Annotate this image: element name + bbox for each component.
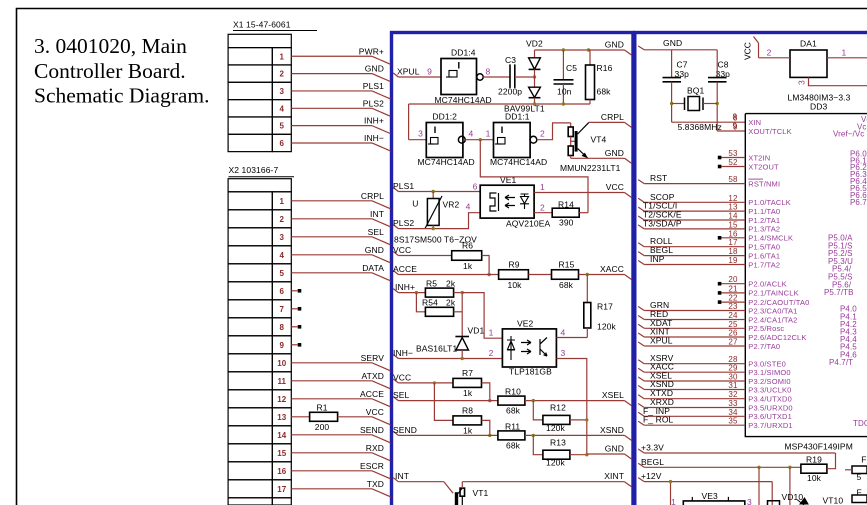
DD3 pin 12 P1.0/TACLK: [638, 198, 644, 202]
svg-text:P2.1/TAINCLK: P2.1/TAINCLK: [748, 289, 798, 298]
svg-text:14: 14: [277, 431, 287, 440]
svg-text:BEGL: BEGL: [641, 457, 664, 467]
svg-text:SEL: SEL: [393, 390, 410, 400]
svg-text:INT: INT: [395, 471, 409, 481]
right module border: [635, 33, 867, 505]
svg-text:R54: R54: [422, 298, 438, 308]
wire R9 to R15: [528, 274, 551, 276]
svg-text:BQ1: BQ1: [687, 86, 704, 96]
net GND port top right: [589, 49, 625, 51]
wire X2 pin 12 net ACCE: [291, 398, 372, 400]
svg-text:1: 1: [540, 182, 545, 192]
wire X2 pin 10 net SERV: [291, 362, 372, 364]
svg-text:F: F: [857, 488, 862, 498]
svg-text:P3.7/URXD1: P3.7/URXD1: [748, 421, 792, 430]
svg-text:29: 29: [728, 364, 738, 373]
svg-text:DD1:2: DD1:2: [432, 111, 457, 121]
DD3 pin 29 P3.1/SIMO0: [638, 368, 644, 372]
svg-text:8: 8: [733, 114, 738, 123]
svg-text:R13: R13: [550, 437, 566, 447]
svg-text:VD10: VD10: [782, 492, 804, 502]
svg-text:GND: GND: [605, 40, 624, 50]
wire VE1 pin1 to VCC port: [534, 192, 624, 194]
wire DD1:1 output to VT4: [537, 123, 571, 140]
svg-text:5: 5: [280, 122, 285, 131]
wire R5/R54 junction to VE2 pin1: [454, 292, 463, 294]
svg-text:25: 25: [728, 320, 738, 329]
resistor R13 120k: [533, 435, 543, 454]
svg-text:XPUL: XPUL: [650, 336, 673, 346]
left module border: [392, 33, 634, 505]
svg-text:XOUT/TCLK: XOUT/TCLK: [748, 127, 791, 136]
svg-text:TXD: TXD: [367, 479, 384, 489]
svg-text:+12V: +12V: [641, 471, 662, 481]
svg-text:1: 1: [842, 48, 847, 58]
svg-text:P1.5/TA0: P1.5/TA0: [748, 243, 780, 252]
wire X2 pin 6 no-connect stub: [291, 290, 297, 292]
svg-text:P2.6/ADC12CLK: P2.6/ADC12CLK: [748, 333, 806, 342]
svg-text:P1.2/TA1: P1.2/TA1: [748, 216, 780, 225]
net GND port right module: [638, 46, 644, 50]
svg-text:1: 1: [671, 497, 676, 505]
svg-text:10n: 10n: [557, 87, 572, 97]
svg-text:16: 16: [728, 229, 738, 238]
svg-text:3: 3: [280, 87, 285, 96]
wire XIN: [672, 121, 746, 123]
svg-text:2k: 2k: [446, 298, 456, 308]
svg-text:2200p: 2200p: [498, 87, 522, 97]
svg-text:R17: R17: [597, 302, 613, 312]
svg-text:Vref−/Vc: Vref−/Vc: [833, 130, 864, 139]
svg-text:2: 2: [280, 215, 285, 224]
wire X2 pin 9 no-connect stub: [291, 344, 297, 346]
wire X1 pin 3 net PLS1: [291, 90, 372, 92]
DD3 pin 33 P3.5/URXD0: [638, 404, 644, 408]
wire R15 to XACC port: [579, 274, 625, 276]
svg-text:XACC: XACC: [600, 264, 624, 274]
svg-text:R19: R19: [806, 454, 822, 464]
svg-text:GND: GND: [663, 38, 682, 48]
svg-text:24: 24: [728, 311, 738, 320]
svg-text:VR2: VR2: [443, 200, 460, 210]
wire GND top rail: [535, 49, 589, 51]
wire X2 pin 16 net ESCR: [291, 470, 372, 472]
svg-text:DATA: DATA: [362, 263, 384, 273]
svg-text:P1.4/SMCLK: P1.4/SMCLK: [748, 234, 793, 243]
svg-text:34: 34: [728, 408, 738, 417]
wire VCC to R7: [398, 382, 453, 384]
wire VE2 pin4 to R17: [556, 337, 587, 339]
svg-text:120k: 120k: [546, 458, 565, 468]
svg-text:3: 3: [280, 233, 285, 242]
svg-text:GND: GND: [605, 444, 624, 454]
svg-text:53: 53: [728, 149, 738, 158]
svg-text:XIN: XIN: [748, 118, 761, 127]
wire GND rail to C7 C8: [644, 49, 717, 51]
wire X1 pin 2 net GND: [291, 73, 372, 75]
wire X2 pin 15 net RXD: [291, 452, 372, 454]
svg-text:R8: R8: [462, 406, 473, 416]
resistor R12 120k: [533, 401, 543, 420]
svg-text:TLP181GB: TLP181GB: [509, 367, 552, 377]
svg-text:P3.6/UTXD1: P3.6/UTXD1: [748, 412, 792, 421]
svg-text:1: 1: [280, 197, 285, 206]
DD3 pin 24 P2.4/CA1/TA2: [638, 316, 644, 320]
DD3 pin 18 P1.6/TA1: [638, 252, 644, 256]
svg-text:VCC: VCC: [743, 42, 753, 60]
svg-text:X1 15-47-6061: X1 15-47-6061: [233, 20, 291, 30]
svg-text:5.8368MHz: 5.8368MHz: [678, 122, 722, 132]
svg-text:12: 12: [728, 194, 738, 203]
svg-text:R10: R10: [505, 387, 521, 397]
svg-text:ESCR: ESCR: [360, 461, 384, 471]
svg-text:8: 8: [486, 67, 491, 77]
svg-text:VD2: VD2: [526, 39, 543, 49]
svg-text:32: 32: [728, 390, 738, 399]
svg-text:SEL: SEL: [368, 227, 385, 237]
net +3.3V rail: [638, 449, 644, 453]
svg-text:DA1: DA1: [800, 39, 817, 49]
wire X1 pin 1 net PWR+: [291, 55, 372, 57]
svg-text:9: 9: [733, 123, 738, 132]
svg-text:DD3: DD3: [810, 102, 827, 112]
svg-text:68k: 68k: [597, 87, 612, 97]
svg-text:33: 33: [728, 399, 738, 408]
svg-text:T3/SDA/P: T3/SDA/P: [643, 218, 682, 228]
svg-text:3: 3: [747, 497, 752, 505]
wire rail down to DD1:2 input: [408, 104, 410, 140]
net INH- port: [393, 355, 398, 359]
wire X1 pin 4 net PLS2: [291, 107, 372, 109]
net INT port: [393, 478, 398, 482]
wire PLS2 to VE1 pin 4: [398, 213, 480, 229]
svg-text:VT1: VT1: [473, 488, 489, 498]
DD3 pin 32 P3.4/UTXD0: [638, 395, 644, 399]
net BEGL rail: [638, 463, 644, 467]
svg-text:4: 4: [466, 202, 471, 212]
svg-text:P2.4/CA1/TA2: P2.4/CA1/TA2: [748, 315, 797, 324]
svg-text:VCC: VCC: [606, 182, 624, 192]
wire X2 pin 17 net TXD: [291, 488, 372, 490]
svg-text:6: 6: [280, 139, 285, 148]
svg-text:VCC: VCC: [366, 407, 384, 417]
svg-text:RST: RST: [650, 173, 667, 183]
svg-text:1k: 1k: [463, 388, 473, 398]
svg-text:1: 1: [489, 328, 494, 338]
svg-text:C3: C3: [505, 55, 516, 65]
svg-text:MSP430F149IPM: MSP430F149IPM: [785, 441, 853, 451]
net XSND port: [625, 435, 632, 440]
svg-text:CRPL: CRPL: [361, 191, 384, 201]
svg-text:SEND: SEND: [360, 425, 384, 435]
svg-text:DD1:4: DD1:4: [451, 48, 476, 58]
wire X2 pin 5 net DATA: [291, 272, 372, 274]
svg-text:F: F: [861, 455, 866, 465]
svg-text:15: 15: [728, 220, 738, 229]
net XSEL port: [625, 401, 632, 406]
svg-text:RST/NMI: RST/NMI: [748, 179, 780, 188]
svg-text:17: 17: [277, 485, 287, 494]
svg-text:XT2OUT: XT2OUT: [748, 162, 779, 171]
wire DA1 pin1 output: [827, 57, 867, 59]
svg-text:INH+: INH+: [364, 116, 384, 126]
svg-text:3: 3: [418, 129, 423, 139]
svg-text:26: 26: [728, 329, 738, 338]
svg-text:9: 9: [280, 341, 285, 350]
svg-text:SERV: SERV: [361, 353, 385, 363]
svg-text:PWR+: PWR+: [359, 46, 384, 56]
DD3 pin 23 P2.3/CA0/TA1: [638, 307, 644, 311]
svg-text:10k: 10k: [508, 280, 523, 290]
svg-text:2: 2: [489, 348, 494, 358]
svg-text:VCC: VCC: [393, 245, 411, 255]
wire +12V down left: [670, 482, 672, 505]
svg-text:INT: INT: [370, 209, 384, 219]
wire X2 pin 14 net SEND: [291, 434, 372, 436]
svg-text:PLS1: PLS1: [393, 181, 414, 191]
wire INH+ down to R54: [416, 293, 425, 312]
wire R13 to pin3 net: [570, 454, 587, 456]
wire ACCE to R9: [398, 274, 498, 276]
DD3 pin 58 RST/NMI: [638, 180, 644, 184]
svg-text:P1.0/TACLK: P1.0/TACLK: [748, 198, 791, 207]
svg-text:VT4: VT4: [591, 135, 607, 145]
svg-text:R6: R6: [462, 241, 473, 251]
svg-text:68k: 68k: [559, 280, 574, 290]
wire VCC to R6: [398, 255, 451, 257]
svg-text:DD1:1: DD1:1: [505, 111, 530, 121]
svg-text:1k: 1k: [463, 261, 473, 271]
svg-text:15: 15: [277, 449, 287, 458]
net ACCE port: [393, 271, 398, 275]
DD3 pin 14 P1.2/TA1: [638, 216, 644, 220]
DD3 pin 22 P2.2/CAOUT/TA0: [718, 300, 722, 304]
svg-text:P2.3/CA0/TA1: P2.3/CA0/TA1: [748, 306, 797, 315]
svg-text:18: 18: [728, 247, 738, 256]
net PLS2 port: [393, 225, 398, 229]
wire R7 to SEL junction: [482, 383, 490, 401]
wire INH+ to R5: [398, 292, 425, 294]
svg-text:VE2: VE2: [517, 319, 534, 329]
svg-text:9: 9: [427, 67, 432, 77]
net PLS1 port: [393, 188, 398, 192]
svg-text:P5.7/TB: P5.7/TB: [824, 288, 854, 297]
wire X2 pin 3 net SEL: [291, 236, 372, 238]
net VCC port (R7 row): [393, 379, 398, 383]
DD3 pin 26 P2.6/ADC12CLK: [638, 333, 644, 337]
svg-text:P1.3/TA2: P1.3/TA2: [748, 225, 780, 234]
DD3 pin 13 P1.1/TA0: [638, 207, 644, 211]
svg-text:P1.6/TA1: P1.6/TA1: [748, 251, 780, 260]
svg-text:P3.3/UCLK0: P3.3/UCLK0: [748, 385, 791, 394]
DD3 pin 53 XT2IN: [718, 156, 722, 160]
svg-text:INH+: INH+: [395, 282, 415, 292]
svg-text:2: 2: [540, 129, 545, 139]
DD3 pin 27 P2.7/TA0: [638, 342, 644, 346]
svg-text:6: 6: [280, 287, 285, 296]
svg-text:VD1: VD1: [468, 326, 485, 336]
svg-text:MC74HC14AD: MC74HC14AD: [418, 157, 475, 167]
wire X2 pin 1 net CRPL: [291, 200, 372, 202]
svg-text:10k: 10k: [807, 473, 822, 483]
DD3 pin 25 P2.5/Rosc: [638, 324, 644, 328]
component below +12V vertical (cut): [768, 501, 780, 505]
wire PLS1 to VE1 pin 6: [398, 191, 480, 193]
component at right edge (cut resistor): [852, 466, 867, 474]
svg-text:P1.7/TA2: P1.7/TA2: [748, 260, 780, 269]
wire DA1 pin3 ground: [809, 77, 867, 85]
svg-text:17: 17: [728, 238, 738, 247]
wire R12 to pin3 net: [570, 419, 587, 421]
svg-text:AQV210EA: AQV210EA: [506, 219, 551, 229]
svg-text:35: 35: [728, 417, 738, 426]
svg-text:XSEL: XSEL: [602, 390, 624, 400]
svg-text:GND: GND: [365, 64, 384, 74]
net INH+ port: [393, 289, 398, 293]
wire BEGL branch down to VE3: [758, 467, 760, 505]
svg-text:INH−: INH−: [364, 133, 384, 143]
svg-text:F_ ROL: F_ ROL: [643, 415, 674, 425]
wire R8 to SEND junction: [482, 420, 490, 435]
svg-text:6: 6: [473, 182, 478, 192]
svg-text:R16: R16: [597, 63, 613, 73]
svg-text:ATXD: ATXD: [362, 371, 384, 381]
svg-text:R11: R11: [505, 422, 520, 432]
svg-text:5: 5: [857, 472, 862, 482]
wire XINT to port: [462, 481, 624, 483]
svg-text:Controller Board.: Controller Board.: [34, 59, 186, 83]
svg-text:P2.5/Rosc: P2.5/Rosc: [748, 324, 784, 333]
net +12V rail: [638, 478, 644, 482]
wire VCC down to R8: [434, 383, 453, 421]
wire DD1:4 output to C3: [483, 76, 509, 78]
wire +12V down right: [771, 482, 773, 505]
svg-text:4: 4: [280, 104, 285, 113]
wire X2 pin 4 net GND: [291, 254, 372, 256]
svg-text:MMUN2231LT1: MMUN2231LT1: [560, 163, 621, 173]
svg-text:VE3: VE3: [702, 491, 719, 501]
svg-text:31: 31: [728, 381, 738, 390]
svg-text:R7: R7: [462, 368, 473, 378]
svg-text:XPUL: XPUL: [397, 67, 420, 77]
DD3 pin 31 P3.3/UCLK0: [638, 386, 644, 390]
svg-text:1k: 1k: [463, 426, 473, 436]
svg-text:TDO: TDO: [853, 419, 867, 428]
net XINT port: [625, 482, 632, 487]
svg-text:3: 3: [797, 80, 807, 85]
svg-text:XT2IN: XT2IN: [748, 153, 770, 162]
svg-text:2: 2: [540, 202, 545, 212]
svg-text:4: 4: [280, 251, 285, 260]
DD3 pin 34 P3.6/UTXD1: [638, 412, 644, 416]
svg-text:P1.1/TA0: P1.1/TA0: [748, 207, 780, 216]
svg-text:VCC: VCC: [393, 372, 411, 382]
svg-text:4: 4: [561, 328, 566, 338]
svg-text:XINT: XINT: [604, 471, 624, 481]
svg-text:68k: 68k: [506, 406, 521, 416]
wire INT to VT1 base: [398, 481, 444, 483]
svg-text:3: 3: [561, 348, 566, 358]
DD3 pin 16 P1.4/SMCLK: [718, 236, 722, 240]
wire XPUL to DD1:4: [398, 76, 441, 78]
resistor R1 200: [291, 416, 309, 418]
svg-text:20: 20: [728, 275, 738, 284]
svg-text:7: 7: [280, 305, 285, 314]
svg-text:52: 52: [728, 158, 738, 167]
svg-text:X2 103166-7: X2 103166-7: [229, 165, 279, 175]
svg-text:16: 16: [277, 467, 287, 476]
svg-text:120k: 120k: [546, 423, 565, 433]
svg-text:5: 5: [280, 269, 285, 278]
svg-text:2: 2: [280, 70, 285, 79]
svg-text:ACCE: ACCE: [360, 389, 384, 399]
svg-text:14: 14: [728, 212, 738, 221]
transistor VT1: [455, 492, 458, 505]
svg-text:U: U: [412, 199, 418, 209]
svg-text:200: 200: [315, 422, 330, 432]
svg-text:ACCE: ACCE: [393, 264, 417, 274]
svg-text:R12: R12: [550, 403, 566, 413]
DD3 pin 30 P3.2/SOMI0: [638, 377, 644, 381]
svg-text:120k: 120k: [597, 322, 616, 332]
svg-text:SEND: SEND: [393, 425, 417, 435]
svg-text:27: 27: [728, 338, 738, 347]
svg-text:VT10: VT10: [823, 496, 844, 505]
svg-text:13: 13: [277, 413, 287, 422]
svg-text:INH−: INH−: [393, 348, 413, 358]
svg-text:PLS2: PLS2: [393, 218, 414, 228]
svg-text:3. 0401020, Main: 3. 0401020, Main: [34, 34, 187, 58]
wire X1 pin 5 net INH+: [291, 125, 372, 127]
svg-text:13: 13: [728, 203, 738, 212]
wire BEGL branch down to VD10: [789, 467, 791, 505]
wire gate junction to R14 (drive line): [480, 140, 588, 213]
svg-text:23: 23: [728, 302, 738, 311]
net VCC port right: [625, 193, 632, 198]
DD3 pin 20 P2.0/ACLK: [718, 282, 722, 286]
DD3 pin 21 P2.1/TAINCLK: [718, 291, 722, 295]
svg-text:1: 1: [486, 129, 491, 139]
svg-text:P2.7/TA0: P2.7/TA0: [748, 342, 780, 351]
net GND port (VT4 emitter): [588, 157, 625, 159]
wire at right edge: [845, 469, 852, 471]
DD3 pin 15 P1.3/TA2: [638, 225, 644, 229]
svg-text:GND: GND: [605, 148, 624, 158]
svg-text:R1: R1: [316, 403, 327, 413]
wire VD2/C5/R16 bottom rail: [409, 103, 590, 105]
wire X2 pin 8 no-connect stub: [291, 326, 297, 328]
wire VE2 pin3 down: [556, 359, 586, 455]
wire X2 pin 11 net ATXD: [291, 380, 372, 382]
wire C3 to VD2: [515, 76, 535, 78]
svg-text:2: 2: [767, 48, 772, 58]
svg-text:21: 21: [728, 284, 738, 293]
transistor VT4 MMUN2231LT1 with bias resistors: [570, 123, 572, 127]
net SEL port: [393, 397, 398, 401]
svg-text:8: 8: [280, 323, 285, 332]
svg-text:GND: GND: [365, 245, 384, 255]
svg-text:R5: R5: [426, 278, 437, 288]
svg-text:P3.1/SIMO0: P3.1/SIMO0: [748, 368, 790, 377]
svg-text:P4.7/T: P4.7/T: [829, 358, 853, 367]
svg-text:PLS1: PLS1: [363, 81, 384, 91]
svg-text:C5: C5: [566, 63, 577, 73]
net SEND port: [393, 431, 398, 435]
net GND port lower right: [587, 453, 625, 455]
wire XOUT: [717, 130, 745, 132]
DD3 pin 52 XT2OUT: [718, 165, 722, 169]
net XPUL port: [393, 73, 398, 77]
